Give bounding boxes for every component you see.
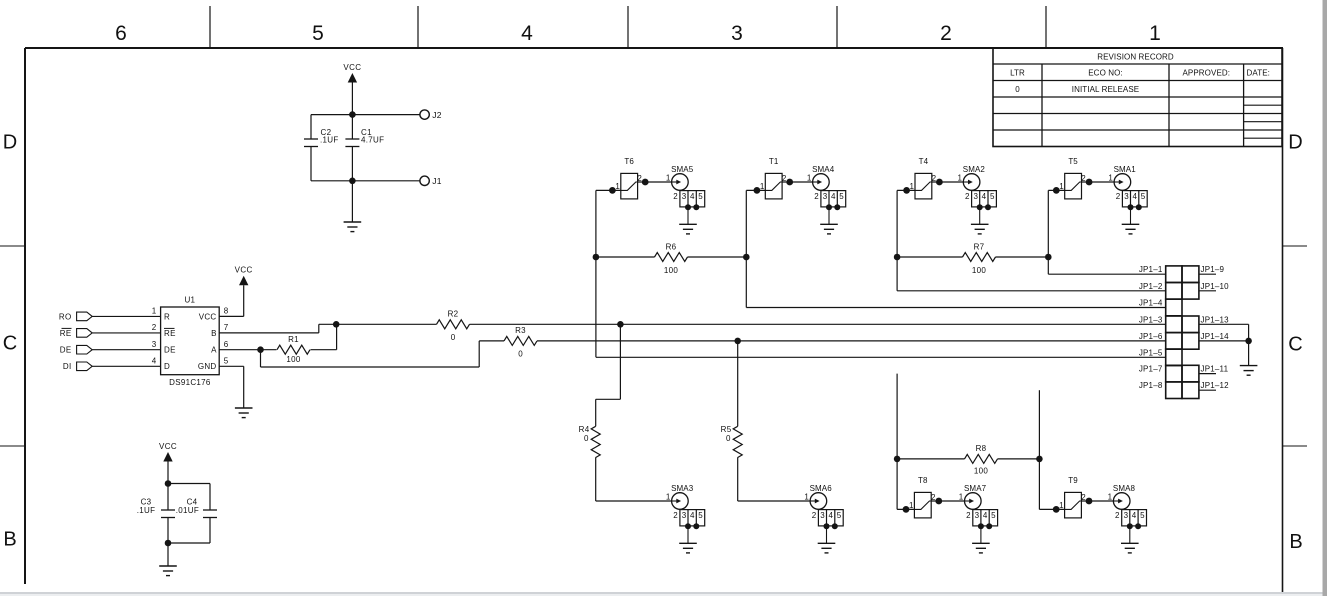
svg-text:JP1–4: JP1–4 bbox=[1139, 299, 1163, 308]
svg-text:INITIAL RELEASE: INITIAL RELEASE bbox=[1072, 85, 1139, 94]
svg-text:J1: J1 bbox=[432, 176, 442, 186]
svg-text:4.7UF: 4.7UF bbox=[361, 136, 384, 145]
svg-text:B: B bbox=[211, 329, 216, 338]
svg-text:0: 0 bbox=[518, 349, 523, 358]
svg-text:REVISION RECORD: REVISION RECORD bbox=[1097, 53, 1174, 62]
svg-text:C: C bbox=[3, 333, 17, 355]
svg-text:5: 5 bbox=[1141, 192, 1146, 201]
svg-text:VCC: VCC bbox=[343, 63, 361, 72]
svg-text:3: 3 bbox=[682, 511, 687, 520]
svg-text:RE: RE bbox=[164, 329, 176, 338]
svg-text:GND: GND bbox=[198, 362, 217, 371]
svg-text:2: 2 bbox=[1115, 511, 1120, 520]
svg-text:R7: R7 bbox=[974, 242, 985, 251]
svg-text:3: 3 bbox=[1124, 511, 1129, 520]
svg-text:JP1–8: JP1–8 bbox=[1139, 381, 1163, 390]
svg-text:2: 2 bbox=[940, 22, 952, 45]
svg-text:R2: R2 bbox=[448, 310, 459, 319]
svg-text:C3: C3 bbox=[141, 497, 152, 506]
svg-text:R1: R1 bbox=[288, 335, 299, 344]
svg-text:DE: DE bbox=[164, 346, 176, 355]
svg-text:2: 2 bbox=[673, 192, 678, 201]
svg-text:4: 4 bbox=[521, 22, 533, 45]
svg-text:JP1–11: JP1–11 bbox=[1201, 365, 1229, 374]
svg-text:1: 1 bbox=[958, 173, 963, 182]
svg-text:2: 2 bbox=[1116, 192, 1121, 201]
svg-text:LTR: LTR bbox=[1010, 69, 1025, 78]
svg-text:4: 4 bbox=[831, 192, 836, 201]
svg-text:T8: T8 bbox=[918, 476, 928, 485]
svg-text:C4: C4 bbox=[187, 497, 198, 506]
svg-text:3: 3 bbox=[731, 22, 743, 45]
svg-text:100: 100 bbox=[286, 355, 300, 364]
svg-text:D: D bbox=[1288, 132, 1302, 154]
svg-text:5: 5 bbox=[990, 192, 995, 201]
svg-text:B: B bbox=[3, 529, 16, 551]
svg-text:4: 4 bbox=[1132, 192, 1137, 201]
svg-text:2: 2 bbox=[812, 511, 817, 520]
svg-text:JP1–1: JP1–1 bbox=[1139, 265, 1163, 274]
svg-text:RE: RE bbox=[60, 329, 72, 338]
svg-text:JP1–12: JP1–12 bbox=[1201, 381, 1230, 390]
svg-text:U1: U1 bbox=[184, 296, 195, 305]
svg-text:SMA7: SMA7 bbox=[964, 484, 987, 493]
svg-text:5: 5 bbox=[839, 192, 844, 201]
svg-text:JP1–5: JP1–5 bbox=[1139, 348, 1163, 357]
svg-text:3: 3 bbox=[152, 340, 157, 349]
svg-text:3: 3 bbox=[682, 192, 687, 201]
svg-text:DE: DE bbox=[60, 346, 72, 355]
svg-text:5: 5 bbox=[837, 511, 842, 520]
svg-text:JP1–6: JP1–6 bbox=[1139, 332, 1163, 341]
svg-text:SMA2: SMA2 bbox=[963, 165, 986, 174]
svg-text:B: B bbox=[1289, 531, 1302, 553]
svg-text:SMA4: SMA4 bbox=[812, 165, 835, 174]
svg-text:1: 1 bbox=[1149, 22, 1161, 45]
svg-text:7: 7 bbox=[224, 323, 229, 332]
svg-text:JP1–9: JP1–9 bbox=[1201, 265, 1225, 274]
svg-text:100: 100 bbox=[972, 266, 986, 275]
svg-text:2: 2 bbox=[152, 323, 157, 332]
svg-text:3: 3 bbox=[823, 192, 828, 201]
svg-text:6: 6 bbox=[224, 340, 229, 349]
svg-text:3: 3 bbox=[973, 192, 978, 201]
svg-text:T4: T4 bbox=[919, 157, 929, 166]
svg-text:5: 5 bbox=[698, 192, 703, 201]
svg-text:4: 4 bbox=[152, 357, 157, 366]
svg-text:ECO NO:: ECO NO: bbox=[1088, 69, 1122, 78]
svg-text:1: 1 bbox=[959, 492, 964, 501]
svg-text:5: 5 bbox=[1140, 511, 1145, 520]
svg-text:R4: R4 bbox=[579, 425, 590, 434]
svg-text:.1UF: .1UF bbox=[137, 506, 156, 515]
svg-text:APPROVED:: APPROVED: bbox=[1183, 69, 1231, 78]
svg-text:100: 100 bbox=[974, 466, 988, 475]
svg-text:SMA1: SMA1 bbox=[1114, 165, 1137, 174]
svg-text:2: 2 bbox=[966, 511, 971, 520]
svg-text:3: 3 bbox=[975, 511, 980, 520]
svg-text:0: 0 bbox=[726, 434, 731, 443]
svg-text:0: 0 bbox=[584, 434, 589, 443]
svg-text:4: 4 bbox=[828, 511, 833, 520]
svg-text:T1: T1 bbox=[769, 157, 779, 166]
svg-text:5: 5 bbox=[312, 22, 324, 45]
svg-text:0: 0 bbox=[1015, 85, 1020, 94]
svg-text:1: 1 bbox=[1108, 173, 1113, 182]
svg-text:SMA8: SMA8 bbox=[1113, 484, 1136, 493]
svg-text:SMA3: SMA3 bbox=[671, 484, 694, 493]
svg-text:5: 5 bbox=[698, 511, 703, 520]
svg-text:J2: J2 bbox=[432, 110, 442, 120]
svg-text:100: 100 bbox=[664, 266, 678, 275]
svg-text:4: 4 bbox=[1132, 511, 1137, 520]
svg-text:R3: R3 bbox=[515, 326, 526, 335]
svg-text:D: D bbox=[164, 362, 170, 371]
svg-text:VCC: VCC bbox=[159, 442, 177, 451]
svg-text:1: 1 bbox=[1108, 492, 1113, 501]
svg-text:2: 2 bbox=[965, 192, 970, 201]
svg-text:A: A bbox=[211, 346, 217, 355]
svg-text:DATE:: DATE: bbox=[1247, 69, 1270, 78]
svg-text:6: 6 bbox=[115, 22, 127, 45]
svg-text:R5: R5 bbox=[721, 425, 732, 434]
svg-text:4: 4 bbox=[983, 511, 988, 520]
svg-text:VCC: VCC bbox=[199, 312, 217, 321]
svg-text:1: 1 bbox=[666, 173, 671, 182]
svg-text:T6: T6 bbox=[624, 157, 634, 166]
svg-text:SMA5: SMA5 bbox=[671, 165, 694, 174]
svg-text:R8: R8 bbox=[976, 444, 987, 453]
svg-text:JP1–2: JP1–2 bbox=[1139, 282, 1163, 291]
svg-text:T9: T9 bbox=[1068, 476, 1078, 485]
svg-text:2: 2 bbox=[814, 192, 819, 201]
svg-text:C: C bbox=[1288, 334, 1302, 356]
svg-text:JP1–7: JP1–7 bbox=[1139, 365, 1163, 374]
svg-text:VCC: VCC bbox=[235, 266, 253, 275]
svg-text:SMA6: SMA6 bbox=[810, 484, 833, 493]
svg-text:JP1–13: JP1–13 bbox=[1201, 315, 1230, 324]
svg-text:4: 4 bbox=[690, 511, 695, 520]
svg-text:D: D bbox=[3, 132, 17, 154]
svg-text:1: 1 bbox=[666, 492, 671, 501]
svg-text:.01UF: .01UF bbox=[176, 506, 199, 515]
svg-text:R6: R6 bbox=[666, 242, 677, 251]
svg-text:4: 4 bbox=[982, 192, 987, 201]
svg-text:1: 1 bbox=[804, 492, 809, 501]
svg-text:DI: DI bbox=[63, 362, 72, 371]
svg-text:4: 4 bbox=[690, 192, 695, 201]
svg-text:1: 1 bbox=[152, 307, 157, 316]
svg-text:T5: T5 bbox=[1068, 157, 1078, 166]
svg-text:3: 3 bbox=[1124, 192, 1129, 201]
svg-text:JP1–3: JP1–3 bbox=[1139, 315, 1163, 324]
svg-text:0: 0 bbox=[451, 333, 456, 342]
svg-text:RO: RO bbox=[59, 312, 72, 321]
svg-text:3: 3 bbox=[820, 511, 825, 520]
svg-text:5: 5 bbox=[991, 511, 996, 520]
svg-text:8: 8 bbox=[224, 307, 229, 316]
svg-text:R: R bbox=[164, 312, 170, 321]
svg-text:2: 2 bbox=[673, 511, 678, 520]
svg-text:.1UF: .1UF bbox=[320, 136, 339, 145]
svg-text:DS91C176: DS91C176 bbox=[169, 378, 211, 387]
svg-text:5: 5 bbox=[224, 357, 229, 366]
svg-text:JP1–10: JP1–10 bbox=[1201, 282, 1230, 291]
svg-text:JP1–14: JP1–14 bbox=[1201, 332, 1230, 341]
svg-text:1: 1 bbox=[807, 173, 812, 182]
